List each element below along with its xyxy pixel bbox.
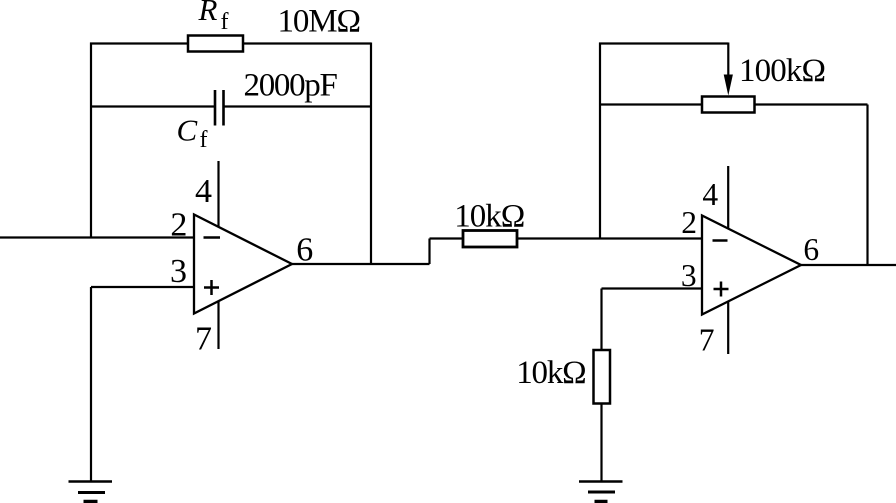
svg-text:f: f	[221, 9, 229, 35]
svg-text:R: R	[198, 0, 218, 27]
wire: U2 power vertical pins 4/7	[727, 166, 729, 354]
wire: Rf branch left segment	[90, 42, 189, 44]
wire: step vertical	[428, 239, 430, 265]
U2 minus input sign	[713, 239, 728, 242]
U1 plus input sign	[204, 280, 219, 295]
svg-text:7: 7	[195, 320, 212, 357]
wire: vertical to grounded resistor	[600, 289, 602, 352]
svg-text:10kΩ: 10kΩ	[516, 355, 586, 391]
ground	[579, 482, 623, 502]
svg-text:2000pF: 2000pF	[244, 68, 338, 104]
svg-text:6: 6	[296, 231, 313, 268]
wire: pin 3 of U2	[602, 287, 703, 289]
U1 minus input sign	[204, 236, 221, 239]
wire: to series resistor	[430, 237, 465, 239]
wire: pin 3 of U1	[91, 286, 194, 288]
svg-text:7: 7	[699, 323, 715, 358]
svg-text:f: f	[200, 127, 208, 153]
wire: right feedback vertical	[370, 43, 372, 265]
svg-text:2: 2	[681, 205, 697, 240]
wire: left feedback vertical	[90, 43, 92, 238]
wire: pot left terminal	[600, 103, 702, 105]
wire: Cf branch right segment	[224, 105, 372, 107]
U2 plus input sign	[714, 282, 729, 297]
wire: potentiometer wiper shaft	[727, 43, 729, 81]
op-amp U2	[702, 216, 801, 315]
svg-text:6: 6	[803, 232, 819, 267]
svg-text:3: 3	[170, 253, 187, 290]
wire: U2 top feedback horizontal	[599, 42, 728, 44]
wire: U1 output	[292, 263, 430, 265]
wire: U1 power vertical pins 4/7	[217, 161, 219, 349]
wire: U2 left feedback vertical	[599, 43, 601, 239]
svg-text:10MΩ: 10MΩ	[278, 4, 362, 40]
svg-text:4: 4	[195, 173, 212, 210]
resistor 10k to ground	[594, 350, 611, 404]
ground	[69, 482, 113, 502]
wire: Cf branch left segment	[90, 105, 215, 107]
op-amp U1	[194, 215, 292, 314]
wire: resistor to ground 2	[600, 404, 602, 482]
wire: U2 output to right edge	[801, 264, 896, 266]
wire: right feedback vertical to output	[866, 105, 868, 266]
svg-text:100kΩ: 100kΩ	[739, 53, 826, 89]
resistor Rf	[188, 36, 243, 52]
wire: Rf branch right segment	[243, 42, 371, 44]
svg-text:10kΩ: 10kΩ	[454, 199, 525, 235]
svg-text:2: 2	[170, 206, 187, 243]
wire: vertical to ground 1	[90, 287, 92, 481]
capacitor Cf plates	[214, 90, 217, 126]
wire: pot right terminal	[755, 103, 868, 105]
svg-text:C: C	[177, 113, 198, 148]
svg-text:3: 3	[681, 258, 697, 293]
svg-text:4: 4	[702, 177, 718, 212]
wire: input to pin 2 of U1	[0, 236, 194, 238]
wire: resistor to pin 2 of U2	[517, 237, 702, 239]
potentiometer 100k body	[702, 97, 755, 113]
potentiometer wiper arrowhead	[724, 75, 733, 96]
resistor 10k series	[463, 231, 517, 248]
